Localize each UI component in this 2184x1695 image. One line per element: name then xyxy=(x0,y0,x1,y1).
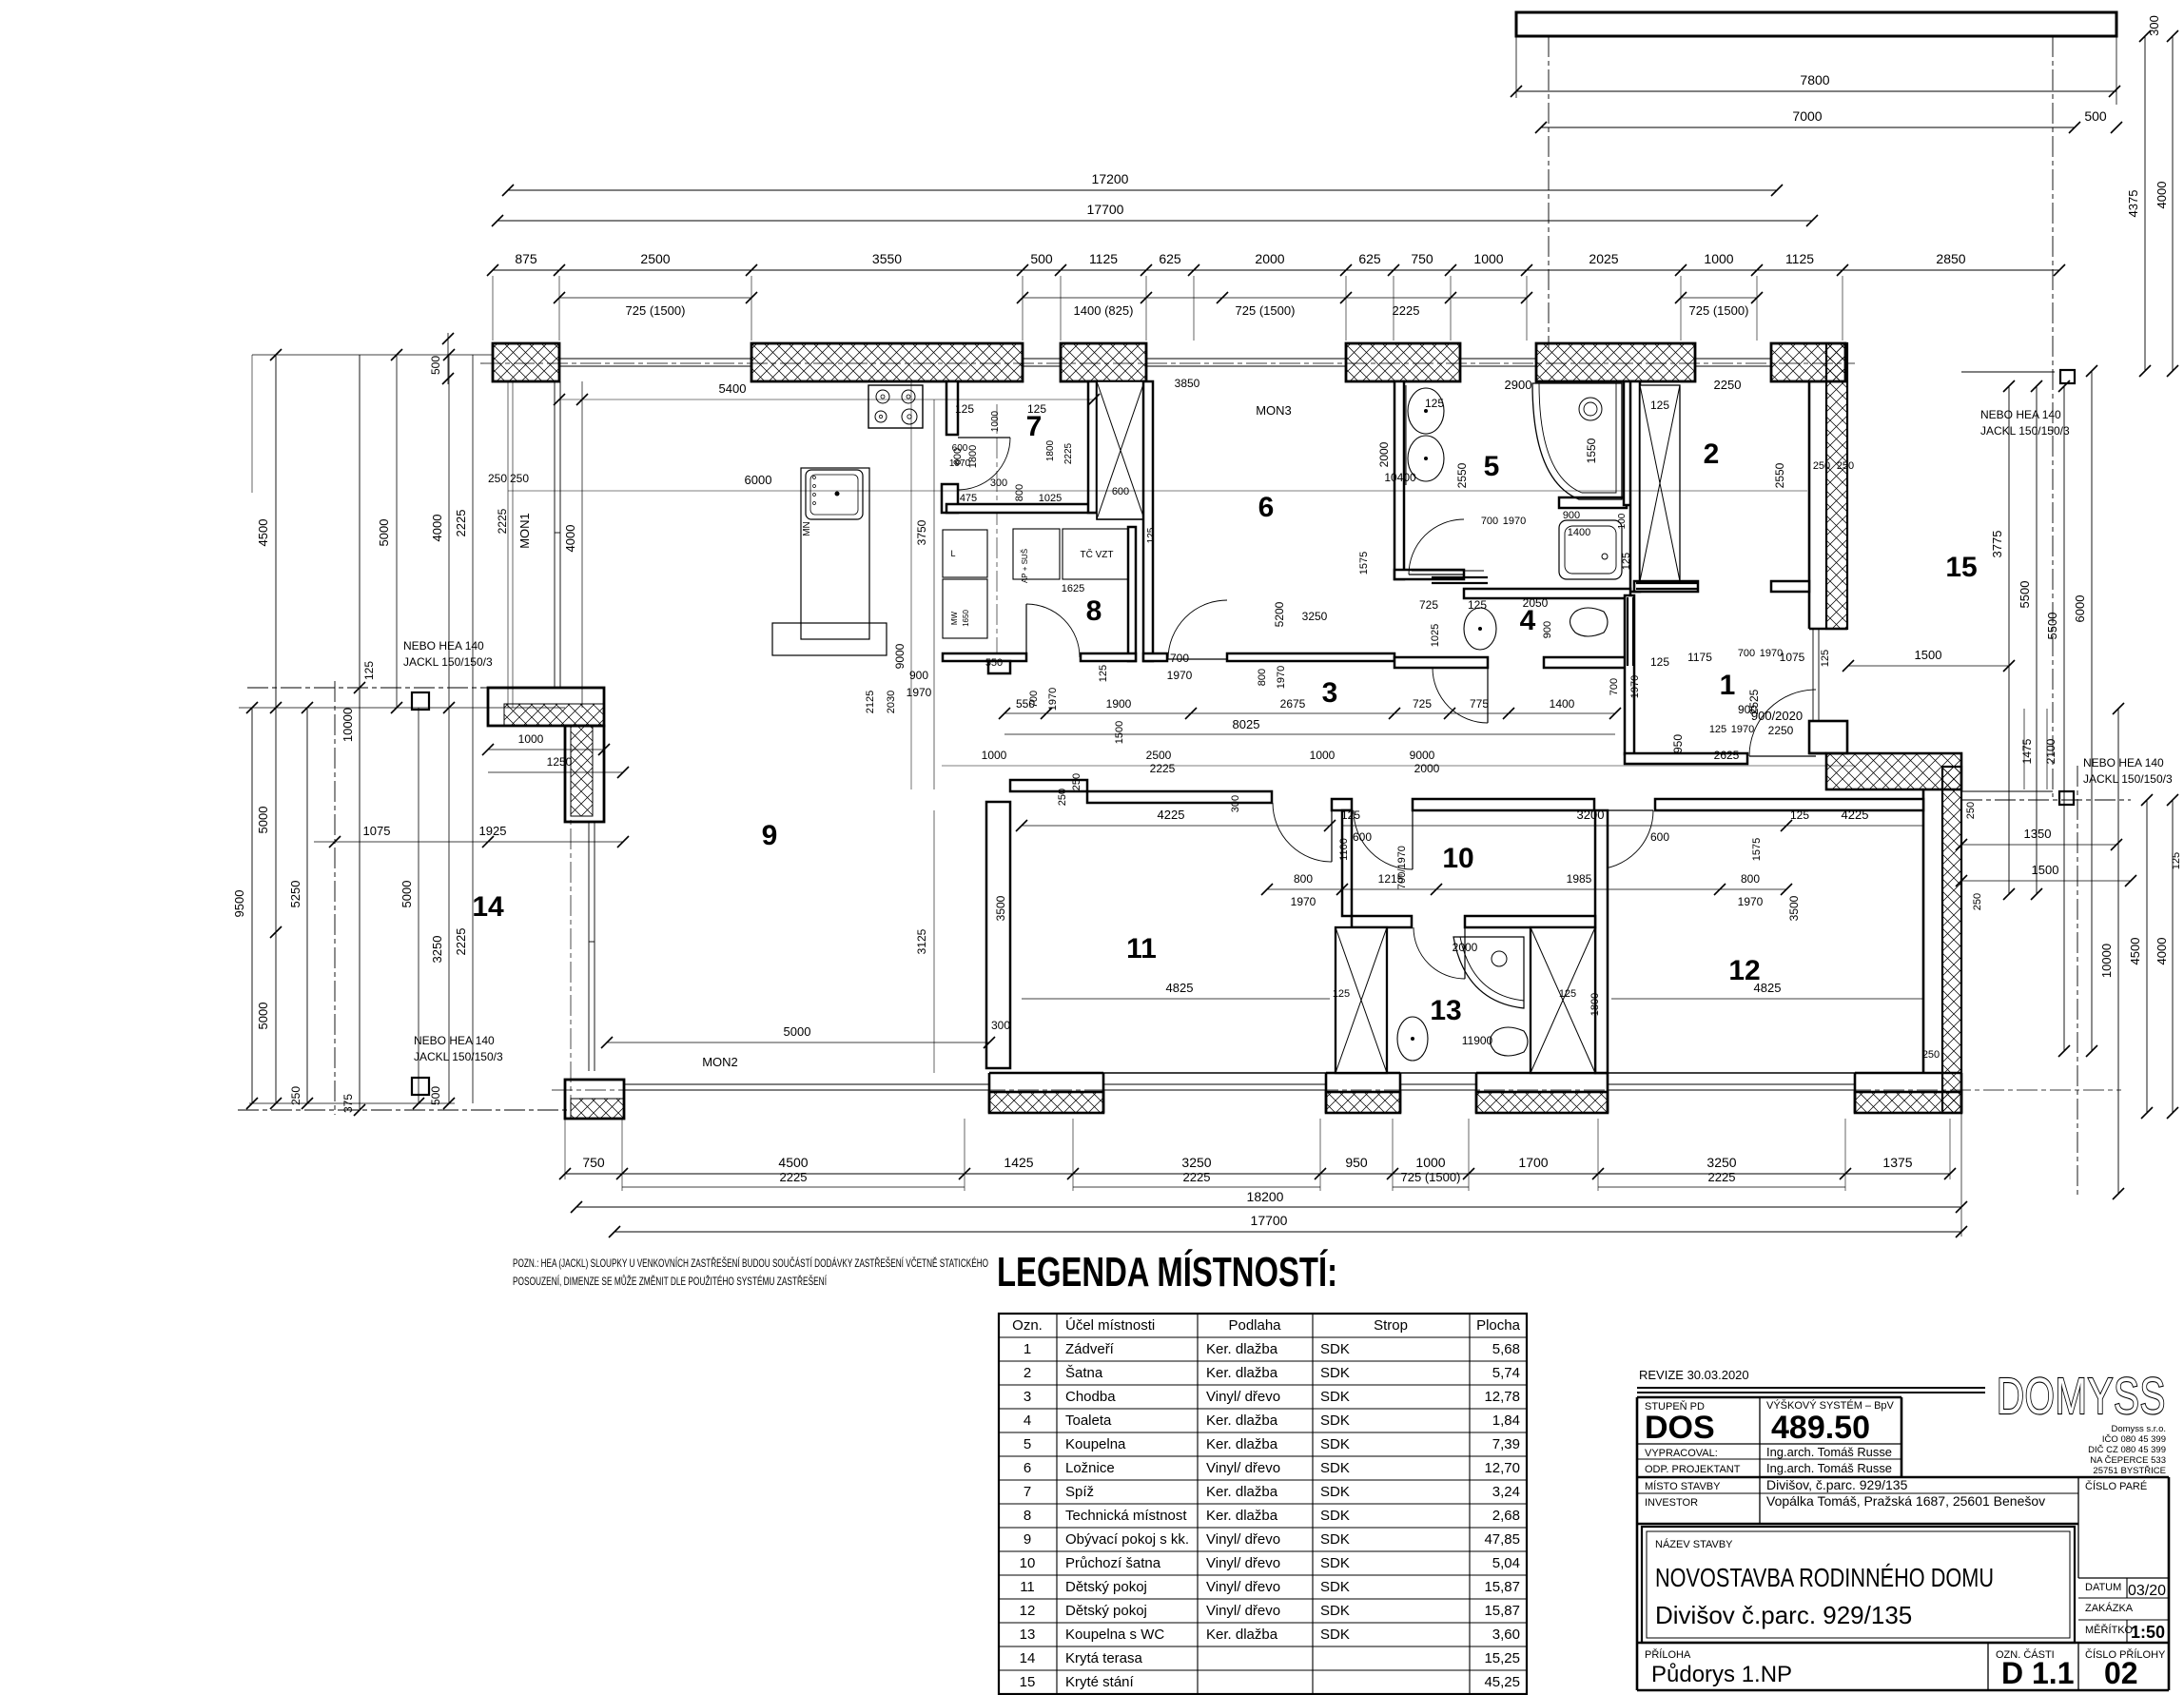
wardrobe X strip rooms 7/6 xyxy=(1097,381,1144,519)
svg-text:1800: 1800 xyxy=(1589,993,1601,1016)
svg-text:11: 11 xyxy=(1020,1579,1035,1595)
svg-text:SDK: SDK xyxy=(1320,1531,1350,1548)
svg-text:Vinyl/ dřevo: Vinyl/ dřevo xyxy=(1206,1579,1280,1595)
svg-text:3250: 3250 xyxy=(1302,610,1328,623)
north-east corner block xyxy=(1771,343,1845,381)
svg-text:125: 125 xyxy=(1027,402,1046,416)
svg-text:125: 125 xyxy=(1333,988,1350,1000)
svg-text:950: 950 xyxy=(1671,734,1685,753)
svg-text:2225: 2225 xyxy=(454,928,468,956)
svg-text:Ker. dlažba: Ker. dlažba xyxy=(1206,1365,1278,1381)
svg-text:13: 13 xyxy=(1020,1627,1036,1643)
svg-text:MÍSTO STAVBY: MÍSTO STAVBY xyxy=(1645,1480,1721,1492)
svg-text:489.50: 489.50 xyxy=(1771,1410,1870,1446)
wing north wall over room 10 xyxy=(1332,799,1352,810)
svg-text:4000: 4000 xyxy=(563,525,577,553)
svg-text:725 (1500): 725 (1500) xyxy=(1401,1170,1461,1184)
porch south wall with hatch xyxy=(1826,753,1961,789)
room 10 door xyxy=(1354,810,1413,869)
svg-text:2125: 2125 xyxy=(865,691,876,713)
room1 west wall xyxy=(1625,595,1634,754)
svg-text:8025: 8025 xyxy=(1233,717,1260,731)
svg-text:1400: 1400 xyxy=(1550,697,1575,711)
svg-text:5000: 5000 xyxy=(400,881,414,908)
svg-text:9000: 9000 xyxy=(1410,749,1435,762)
window sub-dims xyxy=(559,297,751,299)
svg-text:1925: 1925 xyxy=(479,824,507,838)
svg-text:LEGENDA MÍSTNOSTÍ:: LEGENDA MÍSTNOSTÍ: xyxy=(997,1248,1337,1296)
svg-text:600: 600 xyxy=(952,443,968,454)
svg-text:NEBO HEA 140: NEBO HEA 140 xyxy=(2083,756,2164,770)
north wall window 2500 xyxy=(559,358,751,360)
svg-text:250: 250 xyxy=(1972,893,1983,910)
svg-text:DATUM: DATUM xyxy=(2085,1582,2121,1593)
svg-text:800: 800 xyxy=(1294,872,1313,886)
svg-text:125: 125 xyxy=(1425,397,1444,410)
room 5 west wall xyxy=(1394,381,1404,579)
svg-text:IČO 080 45 399: IČO 080 45 399 xyxy=(2102,1434,2166,1445)
svg-text:Ing.arch. Tomáš Russe: Ing.arch. Tomáš Russe xyxy=(1766,1461,1892,1475)
svg-text:2250: 2250 xyxy=(1768,724,1794,737)
svg-text:Průchozí šatna: Průchozí šatna xyxy=(1065,1555,1161,1571)
svg-text:03/20: 03/20 xyxy=(2128,1583,2166,1599)
svg-text:SDK: SDK xyxy=(1320,1555,1350,1571)
svg-text:2030: 2030 xyxy=(886,691,897,713)
svg-text:2675: 2675 xyxy=(1280,697,1306,711)
svg-text:4000: 4000 xyxy=(430,515,444,542)
svg-text:Ozn.: Ozn. xyxy=(1012,1317,1043,1334)
svg-text:1025: 1025 xyxy=(1039,493,1062,504)
svg-text:1000: 1000 xyxy=(1415,1155,1445,1170)
svg-text:SDK: SDK xyxy=(1320,1365,1350,1381)
svg-text:JACKL 150/150/3: JACKL 150/150/3 xyxy=(1980,424,2070,438)
room 10 east / room 12 west wall xyxy=(1595,810,1608,1073)
svg-text:SDK: SDK xyxy=(1320,1484,1350,1500)
svg-text:Zádveří: Zádveří xyxy=(1065,1341,1115,1357)
svg-text:500: 500 xyxy=(2084,108,2107,124)
svg-text:Ker. dlažba: Ker. dlažba xyxy=(1206,1341,1278,1357)
svg-text:2000: 2000 xyxy=(1453,941,1478,954)
svg-text:NA ČEPERCE 533: NA ČEPERCE 533 xyxy=(2090,1455,2166,1466)
svg-text:250: 250 xyxy=(488,472,507,485)
svg-text:3500: 3500 xyxy=(994,895,1007,921)
svg-text:5000: 5000 xyxy=(784,1024,811,1039)
svg-text:MĚŘÍTKO: MĚŘÍTKO xyxy=(2085,1624,2134,1636)
svg-text:475: 475 xyxy=(960,493,977,504)
room 5 south wall xyxy=(1394,570,1464,579)
svg-text:SDK: SDK xyxy=(1320,1508,1350,1524)
svg-text:Ing.arch. Tomáš Russe: Ing.arch. Tomáš Russe xyxy=(1766,1445,1892,1459)
terrace south edge thin xyxy=(624,1083,989,1085)
svg-text:7800: 7800 xyxy=(1800,72,1829,88)
east wall lower piece xyxy=(1809,721,1847,753)
dim 18200 xyxy=(576,1206,1961,1208)
svg-text:10: 10 xyxy=(1442,843,1473,874)
room 6 south wall xyxy=(1143,653,1167,661)
svg-text:7,39: 7,39 xyxy=(1492,1436,1520,1452)
toilet room4 xyxy=(1570,608,1609,636)
svg-text:700: 700 xyxy=(1609,678,1620,695)
svg-text:125: 125 xyxy=(1341,809,1360,822)
svg-text:10000: 10000 xyxy=(2099,944,2114,978)
corridor north wall left xyxy=(943,653,1026,661)
svg-text:1900: 1900 xyxy=(1106,697,1132,711)
svg-text:17200: 17200 xyxy=(1092,171,1129,186)
svg-text:5: 5 xyxy=(1024,1436,1031,1452)
title block frame xyxy=(1636,1397,1639,1690)
svg-text:2225: 2225 xyxy=(1183,1170,1211,1184)
svg-text:5250: 5250 xyxy=(288,881,302,908)
svg-text:Vinyl/ dřevo: Vinyl/ dřevo xyxy=(1206,1389,1280,1405)
svg-text:Ker. dlažba: Ker. dlažba xyxy=(1206,1508,1278,1524)
svg-text:500: 500 xyxy=(429,356,442,375)
svg-text:600: 600 xyxy=(1650,830,1669,844)
svg-text:1000: 1000 xyxy=(1310,749,1336,762)
carport columns xyxy=(2060,370,2075,383)
svg-text:Vinyl/ dřevo: Vinyl/ dřevo xyxy=(1206,1460,1280,1476)
X pier right of room 13 xyxy=(1531,927,1595,1073)
room 5 sinks xyxy=(1408,388,1444,434)
svg-text:1125: 1125 xyxy=(1089,251,1118,266)
svg-text:1425: 1425 xyxy=(1004,1155,1033,1170)
svg-text:125: 125 xyxy=(1621,553,1632,570)
svg-text:2625: 2625 xyxy=(1714,749,1740,762)
svg-text:1970: 1970 xyxy=(1731,724,1754,735)
svg-text:3550: 3550 xyxy=(872,251,902,266)
room1 exterior door xyxy=(1749,690,1816,756)
svg-text:1800: 1800 xyxy=(1045,439,1056,461)
svg-text:5500: 5500 xyxy=(2018,581,2032,609)
svg-text:Obývací pokoj s kk.: Obývací pokoj s kk. xyxy=(1065,1531,1189,1548)
room 7 door xyxy=(958,438,1010,490)
svg-text:700/1970: 700/1970 xyxy=(1396,846,1408,889)
svg-text:5000: 5000 xyxy=(256,1003,270,1030)
svg-text:NEBO HEA 140: NEBO HEA 140 xyxy=(414,1034,495,1047)
svg-text:2225: 2225 xyxy=(780,1170,808,1184)
svg-text:4500: 4500 xyxy=(2128,938,2142,965)
svg-text:1575: 1575 xyxy=(1358,552,1370,575)
kitchen stove xyxy=(868,385,923,428)
corridor dims xyxy=(1004,712,1615,714)
svg-text:4825: 4825 xyxy=(1166,981,1194,995)
svg-text:1700: 1700 xyxy=(1518,1155,1548,1170)
svg-text:SDK: SDK xyxy=(1320,1341,1350,1357)
svg-text:700: 700 xyxy=(1738,648,1755,659)
room 4 north wall xyxy=(1464,589,1630,598)
svg-text:12: 12 xyxy=(1020,1603,1036,1619)
svg-text:Vopálka Tomáš, Pražská 1687, 2: Vopálka Tomáš, Pražská 1687, 25601 Beneš… xyxy=(1766,1493,2045,1509)
svg-text:1970: 1970 xyxy=(1291,895,1316,908)
svg-text:600: 600 xyxy=(1112,486,1129,497)
svg-text:125: 125 xyxy=(1650,399,1669,412)
svg-text:125: 125 xyxy=(2171,852,2182,869)
svg-text:2000: 2000 xyxy=(1377,441,1391,467)
svg-text:1000: 1000 xyxy=(518,732,544,746)
svg-text:13: 13 xyxy=(1430,995,1461,1026)
room 8 appliance AP+SUS xyxy=(1013,529,1060,579)
right dims xyxy=(2008,386,2010,894)
svg-text:250: 250 xyxy=(510,472,529,485)
svg-text:2,68: 2,68 xyxy=(1492,1508,1520,1524)
svg-text:1575: 1575 xyxy=(1751,838,1763,861)
room 8 door xyxy=(1026,604,1080,657)
svg-text:1000: 1000 xyxy=(990,410,1001,432)
svg-text:125: 125 xyxy=(1790,809,1809,822)
svg-text:1500: 1500 xyxy=(1915,648,1942,662)
wall above bath xyxy=(1559,497,1627,508)
svg-text:1650: 1650 xyxy=(962,610,970,627)
svg-text:Kryté stání: Kryté stání xyxy=(1065,1674,1135,1690)
svg-text:5000: 5000 xyxy=(256,807,270,834)
kitchen counter xyxy=(801,468,869,639)
svg-text:6000: 6000 xyxy=(745,473,772,487)
pocket door bars room2 xyxy=(1636,582,1698,584)
svg-text:Divišov č.parc. 929/135: Divišov č.parc. 929/135 xyxy=(1655,1601,1912,1629)
svg-text:700: 700 xyxy=(1028,691,1040,708)
room 7 west wall upper xyxy=(946,381,958,435)
svg-text:800: 800 xyxy=(1014,484,1025,501)
svg-text:3: 3 xyxy=(1322,677,1338,709)
svg-text:900: 900 xyxy=(1738,703,1757,716)
svg-text:17700: 17700 xyxy=(1087,202,1124,217)
svg-text:900: 900 xyxy=(1563,510,1580,521)
svg-text:SDK: SDK xyxy=(1320,1627,1350,1643)
svg-text:2225: 2225 xyxy=(454,510,468,537)
svg-text:2225: 2225 xyxy=(1063,442,1074,464)
svg-text:1400 (825): 1400 (825) xyxy=(1074,303,1134,318)
kitchen sink xyxy=(806,470,863,519)
svg-text:625: 625 xyxy=(1358,251,1381,266)
svg-text:SDK: SDK xyxy=(1320,1412,1350,1429)
svg-text:1970: 1970 xyxy=(949,458,971,469)
wing top dims xyxy=(1022,825,1330,827)
svg-text:4225: 4225 xyxy=(1842,808,1869,822)
svg-text:Půdorys 1.NP: Půdorys 1.NP xyxy=(1651,1662,1792,1687)
svg-text:15,87: 15,87 xyxy=(1484,1603,1520,1619)
svg-text:1970: 1970 xyxy=(1738,895,1764,908)
svg-text:4: 4 xyxy=(1024,1412,1031,1429)
svg-text:250: 250 xyxy=(1965,802,1977,819)
room 4 south wall xyxy=(1394,657,1488,668)
terrace NW L-block xyxy=(488,688,604,726)
svg-text:Ker. dlažba: Ker. dlažba xyxy=(1206,1627,1278,1643)
svg-text:1970: 1970 xyxy=(907,686,932,699)
north window MON3 xyxy=(1146,358,1346,360)
svg-text:2000: 2000 xyxy=(1414,762,1440,775)
svg-text:1970: 1970 xyxy=(1276,666,1287,689)
svg-text:2000: 2000 xyxy=(1255,251,1284,266)
svg-text:Vinyl/ dřevo: Vinyl/ dřevo xyxy=(1206,1603,1280,1619)
svg-text:2550: 2550 xyxy=(1773,462,1786,488)
east outer wall (top wing) xyxy=(1826,343,1847,629)
north wall hatched 2025 xyxy=(1536,343,1695,381)
svg-text:2850: 2850 xyxy=(1936,251,1965,266)
svg-text:JACKL 150/150/3: JACKL 150/150/3 xyxy=(403,655,493,669)
corridor north wall mid xyxy=(1081,653,1136,661)
room 7 east wall xyxy=(1088,381,1097,513)
svg-text:3200: 3200 xyxy=(1577,808,1605,822)
svg-text:3250: 3250 xyxy=(430,936,444,964)
dims inside terrace xyxy=(607,1042,989,1043)
west glazing lower xyxy=(588,822,590,1071)
top wall dim chain xyxy=(493,269,2059,271)
svg-text:2050: 2050 xyxy=(1523,596,1549,610)
svg-text:1970: 1970 xyxy=(1167,669,1193,682)
svg-text:Technická místnost: Technická místnost xyxy=(1065,1508,1187,1524)
svg-text:1:50: 1:50 xyxy=(2131,1623,2165,1642)
svg-text:1: 1 xyxy=(1024,1341,1031,1357)
svg-text:3125: 3125 xyxy=(915,928,928,954)
svg-text:725: 725 xyxy=(1413,697,1432,711)
svg-text:5500: 5500 xyxy=(2045,613,2059,640)
svg-text:250: 250 xyxy=(1071,773,1082,790)
room 11/12 dims xyxy=(1022,998,1330,1000)
svg-text:15,87: 15,87 xyxy=(1484,1579,1520,1595)
svg-text:125: 125 xyxy=(1709,724,1726,735)
meritko box xyxy=(2078,1619,2169,1621)
svg-text:1075: 1075 xyxy=(363,824,391,838)
svg-text:775: 775 xyxy=(1470,697,1489,711)
room 5 corner shower xyxy=(1532,383,1622,499)
svg-text:900: 900 xyxy=(1542,621,1553,638)
axis dash-dot lines xyxy=(1548,36,1550,350)
svg-text:ZAKÁZKA: ZAKÁZKA xyxy=(2085,1602,2134,1614)
svg-text:2: 2 xyxy=(1704,438,1720,470)
north window 500 xyxy=(1023,358,1061,360)
svg-text:725: 725 xyxy=(1419,598,1438,612)
svg-text:9000: 9000 xyxy=(893,643,907,669)
svg-text:SDK: SDK xyxy=(1320,1603,1350,1619)
svg-text:1175: 1175 xyxy=(1687,651,1712,664)
svg-text:VYPRACOVAL:: VYPRACOVAL: xyxy=(1645,1448,1718,1459)
svg-text:25751 BYSTŘICE: 25751 BYSTŘICE xyxy=(2093,1466,2166,1476)
room 5 door xyxy=(1409,519,1464,575)
svg-text:Spíž: Spíž xyxy=(1065,1484,1094,1500)
svg-text:6: 6 xyxy=(1258,492,1275,523)
svg-text:1970: 1970 xyxy=(1629,675,1641,698)
svg-text:1550: 1550 xyxy=(1585,438,1598,463)
svg-text:125: 125 xyxy=(1146,527,1157,543)
svg-text:POZN.: HEA (JACKL) SLOUPKY U V: POZN.: HEA (JACKL) SLOUPKY U VENKOVNÍCH … xyxy=(513,1256,988,1270)
svg-text:1000: 1000 xyxy=(1704,251,1733,266)
svg-text:250: 250 xyxy=(1837,460,1854,472)
svg-text:12,78: 12,78 xyxy=(1484,1389,1520,1405)
svg-text:625: 625 xyxy=(1159,251,1181,266)
svg-text:2025: 2025 xyxy=(1589,251,1618,266)
room13 sink xyxy=(1397,1017,1428,1061)
svg-text:2225: 2225 xyxy=(1150,762,1176,775)
svg-text:10400: 10400 xyxy=(1384,471,1416,484)
carport roof outline xyxy=(1516,12,2116,36)
svg-text:Ložnice: Ložnice xyxy=(1065,1460,1115,1476)
living south wall west part xyxy=(1010,780,1087,791)
svg-text:900: 900 xyxy=(909,669,928,682)
svg-text:JACKL 150/150/3: JACKL 150/150/3 xyxy=(2083,772,2173,786)
svg-text:3750: 3750 xyxy=(915,519,928,545)
svg-text:2500: 2500 xyxy=(1146,749,1172,762)
svg-text:2100: 2100 xyxy=(2044,738,2057,764)
svg-text:2550: 2550 xyxy=(1455,462,1469,488)
wing north wall right part xyxy=(1655,799,1923,810)
svg-text:1: 1 xyxy=(1720,670,1736,701)
svg-text:1985: 1985 xyxy=(1567,872,1592,886)
north window 1000b xyxy=(1695,358,1771,360)
vypracoval rows xyxy=(1637,1458,1901,1460)
carport horizontal dims xyxy=(1961,844,2116,846)
svg-text:250: 250 xyxy=(289,1086,302,1105)
svg-text:Ker. dlažba: Ker. dlažba xyxy=(1206,1412,1278,1429)
svg-text:5,68: 5,68 xyxy=(1492,1341,1520,1357)
svg-text:REVIZE 30.03.2020: REVIZE 30.03.2020 xyxy=(1639,1368,1749,1382)
north wall segment hatched 3550 xyxy=(751,343,1023,381)
room1 south wall xyxy=(1625,753,1747,764)
room 6 door xyxy=(1168,600,1227,659)
svg-text:3250: 3250 xyxy=(1181,1155,1211,1170)
dim 17200 xyxy=(508,189,1777,191)
svg-text:PŘÍLOHA: PŘÍLOHA xyxy=(1645,1648,1691,1661)
svg-text:700: 700 xyxy=(1481,516,1498,527)
svg-text:550: 550 xyxy=(985,657,1003,669)
datum box xyxy=(2078,1577,2169,1579)
misto stavby row xyxy=(1637,1492,2078,1494)
svg-text:1,84: 1,84 xyxy=(1492,1412,1520,1429)
svg-text:11900: 11900 xyxy=(1462,1034,1493,1047)
svg-text:5,04: 5,04 xyxy=(1492,1555,1520,1571)
wing mid dims xyxy=(1267,888,1786,890)
svg-text:1100: 1100 xyxy=(1338,838,1350,861)
svg-text:12,70: 12,70 xyxy=(1484,1460,1520,1476)
svg-text:2225: 2225 xyxy=(1708,1170,1736,1184)
svg-text:4225: 4225 xyxy=(1158,808,1185,822)
svg-text:125: 125 xyxy=(1468,598,1487,612)
svg-text:L: L xyxy=(950,549,955,558)
dim 17700 top xyxy=(497,220,1812,222)
svg-text:MON2: MON2 xyxy=(702,1055,738,1069)
svg-text:15,25: 15,25 xyxy=(1484,1650,1520,1666)
room13 door xyxy=(1414,927,1465,979)
svg-text:725 (1500): 725 (1500) xyxy=(1689,303,1749,318)
svg-text:500: 500 xyxy=(429,1086,442,1105)
wall jog below room8 xyxy=(988,661,1010,673)
svg-text:125: 125 xyxy=(1098,665,1109,682)
svg-text:DIČ CZ 080 45 399: DIČ CZ 080 45 399 xyxy=(2088,1445,2166,1455)
svg-text:Šatna: Šatna xyxy=(1065,1365,1103,1381)
svg-text:DOS: DOS xyxy=(1645,1410,1715,1446)
svg-text:125: 125 xyxy=(955,402,974,416)
south outer wall: room11 block xyxy=(989,1092,1103,1113)
svg-text:14: 14 xyxy=(1020,1650,1036,1666)
room 7 west wall lower xyxy=(942,484,958,513)
svg-text:1250: 1250 xyxy=(547,755,573,769)
svg-text:1350: 1350 xyxy=(2024,827,2052,841)
svg-text:2500: 2500 xyxy=(640,251,670,266)
svg-text:125: 125 xyxy=(1559,988,1576,1000)
svg-text:6: 6 xyxy=(1024,1460,1031,1476)
svg-text:SDK: SDK xyxy=(1320,1579,1350,1595)
svg-text:Plocha: Plocha xyxy=(1476,1317,1521,1334)
svg-text:Koupelna: Koupelna xyxy=(1065,1436,1126,1452)
west glazing upper xyxy=(554,381,556,688)
svg-text:1970: 1970 xyxy=(1503,516,1526,527)
svg-text:1500: 1500 xyxy=(1114,721,1125,744)
room 10 south wall xyxy=(1352,916,1412,927)
room 4 door xyxy=(1433,668,1488,723)
svg-text:5: 5 xyxy=(1484,451,1500,482)
laundry boxes xyxy=(943,530,987,577)
svg-text:1475: 1475 xyxy=(2020,738,2034,764)
svg-text:SDK: SDK xyxy=(1320,1460,1350,1476)
terrace local dims xyxy=(488,749,604,750)
